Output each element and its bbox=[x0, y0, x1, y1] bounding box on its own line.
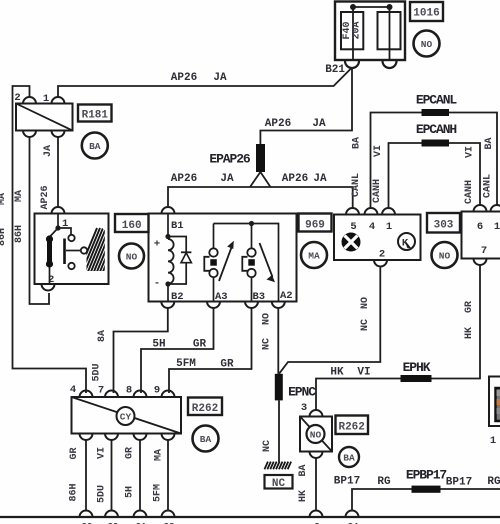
svg-text:GR: GR bbox=[193, 339, 207, 351]
chassis ground hatch (NC) bbox=[265, 462, 292, 470]
svg-text:1: 1 bbox=[494, 221, 500, 233]
svg-text:B21: B21 bbox=[325, 64, 345, 76]
wire: relay B3 5FM GR down-left to CY pin9 bbox=[169, 309, 252, 394]
svg-text:NO: NO bbox=[439, 251, 451, 262]
svg-text:RG: RG bbox=[377, 476, 391, 488]
svg-text:5FM: 5FM bbox=[153, 484, 164, 502]
connector 303 body bbox=[462, 212, 500, 259]
right edge component box bbox=[489, 377, 500, 427]
MA circle (969) bbox=[301, 242, 327, 268]
switch actuator bar bbox=[63, 239, 66, 265]
relay pin bumps bottom B2 A3 B3 A2 bbox=[161, 302, 284, 309]
svg-text:303: 303 bbox=[434, 220, 454, 232]
svg-text:1016: 1016 bbox=[413, 8, 439, 20]
svg-text:NO: NO bbox=[262, 313, 273, 325]
svg-text:B3: B3 bbox=[253, 291, 266, 303]
NO pressure switch body bbox=[300, 417, 332, 452]
wire: EPCANL run from 969 pin4 to right connector pin1 bbox=[371, 113, 498, 210]
fuse box 1016 outline bbox=[335, 2, 405, 61]
component label box R262 (CY) bbox=[188, 398, 222, 416]
svg-text:4: 4 bbox=[369, 221, 375, 233]
svg-text:JA: JA bbox=[312, 118, 326, 130]
svg-text:EPCANL: EPCANL bbox=[416, 93, 458, 108]
svg-text:NO: NO bbox=[360, 297, 371, 309]
wire: 969 pin2 NO/NC down then left to EPNC bar bbox=[279, 268, 380, 374]
svg-text:GR: GR bbox=[69, 447, 80, 459]
svg-text:EPNC: EPNC bbox=[288, 385, 316, 400]
svg-text:HK: HK bbox=[298, 490, 309, 502]
svg-text:MA: MA bbox=[14, 190, 25, 202]
svg-text:VI: VI bbox=[357, 367, 370, 379]
wire: relay B2 down-left to CY pin7 bbox=[114, 309, 168, 394]
svg-text:5FM: 5FM bbox=[176, 358, 196, 370]
svg-text:JA: JA bbox=[220, 173, 234, 185]
svg-text:R262: R262 bbox=[338, 422, 364, 434]
component label box NC bbox=[265, 475, 293, 489]
svg-text:EPHK: EPHK bbox=[403, 360, 431, 375]
svg-text:CANL: CANL bbox=[483, 174, 494, 198]
svg-text:NO: NO bbox=[421, 39, 433, 50]
svg-text:BP17: BP17 bbox=[446, 477, 472, 489]
fuse box terminal bumps bbox=[345, 61, 397, 68]
svg-text:BA: BA bbox=[298, 464, 309, 476]
connector 969 bottom bump pin 2 bbox=[374, 260, 387, 267]
svg-text:86H: 86H bbox=[69, 483, 80, 501]
bottom bus bar bbox=[0, 516, 500, 518]
NO circle (1016) bbox=[414, 31, 440, 57]
svg-text:5H: 5H bbox=[125, 486, 136, 498]
svg-text:BA: BA bbox=[89, 141, 101, 152]
svg-text:BA: BA bbox=[484, 137, 495, 149]
svg-text:4: 4 bbox=[70, 384, 76, 396]
svg-text:GR: GR bbox=[464, 301, 475, 313]
wire: R181 pin1 top AP26 JA horizontal to B21 bbox=[58, 68, 352, 99]
svg-text:BA: BA bbox=[343, 453, 355, 464]
svg-text:HK: HK bbox=[330, 367, 344, 379]
svg-text:R262: R262 bbox=[192, 403, 218, 415]
fuse 2 (blank) bbox=[378, 12, 401, 49]
svg-text:BP17: BP17 bbox=[334, 476, 360, 488]
component label box 303 bbox=[427, 213, 460, 233]
svg-text:EPCANH: EPCANH bbox=[416, 122, 457, 137]
svg-text:A3: A3 bbox=[215, 291, 228, 303]
diode D1 branch bbox=[168, 237, 186, 285]
svg-text:CANH: CANH bbox=[372, 179, 383, 203]
connector 969 top bumps pins 5 4 1 bbox=[346, 208, 395, 215]
svg-text:7: 7 bbox=[481, 245, 487, 257]
svg-text:A2: A2 bbox=[280, 290, 293, 302]
component label box 969 bbox=[299, 214, 332, 232]
wire: relay A2 pin down into EPNC bar bbox=[277, 309, 279, 374]
splice bar EPCANH bbox=[422, 140, 450, 147]
wire: R181 bottom-left down-left rail to switch pin2 bbox=[30, 137, 50, 305]
svg-text:160: 160 bbox=[122, 220, 142, 232]
svg-text:AP26: AP26 bbox=[171, 72, 197, 84]
svg-text:AP26: AP26 bbox=[265, 118, 291, 130]
svg-text:HK: HK bbox=[464, 327, 475, 339]
switch internal wiring bbox=[50, 214, 72, 285]
svg-text:CANH: CANH bbox=[464, 180, 475, 204]
svg-text:1: 1 bbox=[490, 435, 496, 447]
connector 303 bottom bump pin 7 bbox=[474, 259, 487, 266]
wire: AP26 JA rail y187 from relay B1 to 969 pin5 bbox=[168, 187, 353, 209]
connector CY body bbox=[72, 397, 182, 434]
component label box 1016 bbox=[410, 2, 443, 21]
relay K1 body bbox=[149, 214, 297, 302]
contact B3 bbox=[251, 224, 253, 302]
splice bar EPHK bbox=[401, 375, 432, 382]
wire: EPNC bar down to chassis ground bbox=[278, 400, 280, 462]
svg-text:5DU: 5DU bbox=[92, 363, 103, 381]
svg-text:NC: NC bbox=[262, 338, 273, 350]
component label box 160 bbox=[115, 214, 149, 232]
CY bottom bumps bbox=[80, 434, 175, 441]
svg-text:MA: MA bbox=[154, 449, 165, 461]
svg-text:NO: NO bbox=[126, 252, 138, 263]
svg-text:-: - bbox=[154, 278, 160, 290]
contact A3 motion arrow bbox=[219, 246, 232, 281]
svg-text:5DU: 5DU bbox=[97, 485, 108, 503]
lamp symbol in connector bbox=[342, 233, 361, 252]
svg-text:MA: MA bbox=[308, 251, 320, 262]
bottom bus bumps bbox=[80, 511, 359, 517]
svg-text:2: 2 bbox=[379, 249, 385, 261]
BA circle (CY) bbox=[193, 426, 219, 452]
svg-text:NC: NC bbox=[272, 478, 286, 490]
splice bar EPBP17 bbox=[412, 486, 441, 493]
BA circle (pressure switch) bbox=[339, 447, 359, 467]
svg-text:EPBP17: EPBP17 bbox=[406, 468, 447, 483]
wire: BP17 RG horizontal through EPBP17 bar to right edge bbox=[352, 489, 500, 511]
NO circle (303) bbox=[432, 242, 458, 268]
svg-text:GR: GR bbox=[220, 359, 234, 371]
fuse feed wires with junction dots bbox=[353, 7, 390, 60]
clipped pin numbers below bus bbox=[82, 522, 359, 524]
connector 303 top bumps pins 6 1 bbox=[474, 205, 500, 211]
svg-text:8A: 8A bbox=[97, 330, 108, 342]
R181 pin bumps bbox=[23, 97, 65, 103]
svg-text:NC: NC bbox=[360, 319, 371, 331]
svg-text:86H: 86H bbox=[0, 228, 8, 246]
relay contact rail bbox=[214, 224, 279, 302]
svg-text:GR: GR bbox=[125, 447, 136, 459]
splice bar EPCANL bbox=[422, 109, 450, 116]
svg-text:1: 1 bbox=[386, 221, 392, 233]
svg-text:7: 7 bbox=[98, 385, 104, 397]
svg-text:9: 9 bbox=[154, 385, 160, 397]
switch S1 body bbox=[35, 214, 109, 285]
wire: NO-switch bottom HK down to bottom bus bbox=[315, 458, 317, 512]
svg-text:2: 2 bbox=[14, 92, 20, 104]
wire: B21 vertical down, AP26 JA horizontal into EPAP26 bar bbox=[260, 68, 352, 145]
svg-text:VI: VI bbox=[97, 447, 108, 459]
svg-text:6: 6 bbox=[477, 221, 483, 233]
svg-text:VI: VI bbox=[465, 146, 476, 158]
connector 969 body bbox=[334, 215, 421, 261]
motor K symbol in connector bbox=[398, 233, 415, 250]
svg-text:JA: JA bbox=[43, 145, 54, 157]
wire: R181 pin2 to left rail MA/86H down to CY pin 4 bbox=[13, 86, 87, 393]
component label box R262 (pressure switch) bbox=[336, 416, 369, 435]
fuse F40 20A bbox=[341, 12, 363, 49]
svg-text:NO: NO bbox=[310, 430, 322, 441]
relay R181 body bbox=[16, 104, 73, 131]
wire: HK VI rail through EPHK bar from switch3 up to right connector pin7 bbox=[316, 265, 480, 410]
wire: CY pin outputs down to bottom bus bbox=[86, 440, 168, 511]
svg-text:NC: NC bbox=[262, 440, 273, 452]
svg-text:8: 8 bbox=[126, 385, 132, 397]
svg-text:3: 3 bbox=[301, 402, 307, 414]
splice bar EPAP26 bbox=[256, 144, 265, 172]
svg-text:CY: CY bbox=[120, 412, 132, 423]
svg-text:MA: MA bbox=[0, 193, 8, 205]
svg-text:BA: BA bbox=[200, 434, 212, 445]
relay pin bumps top B1 bbox=[162, 207, 175, 214]
svg-text:AP26: AP26 bbox=[171, 173, 197, 185]
svg-text:AP26: AP26 bbox=[282, 173, 308, 185]
wire: EPCANH run from 969 pin1 to right connector pin6 bbox=[389, 143, 481, 209]
svg-text:JA: JA bbox=[313, 173, 327, 185]
svg-text:5: 5 bbox=[350, 221, 356, 233]
svg-text:B1: B1 bbox=[171, 220, 184, 232]
svg-text:20A: 20A bbox=[352, 21, 363, 39]
svg-text:B2: B2 bbox=[171, 291, 184, 303]
svg-text:VI: VI bbox=[373, 145, 384, 157]
switch pin bumps bbox=[52, 207, 65, 214]
contact A3 bbox=[213, 224, 215, 302]
svg-text:CANL: CANL bbox=[351, 173, 362, 197]
svg-text:5H: 5H bbox=[152, 339, 165, 351]
svg-text:RG: RG bbox=[487, 476, 500, 488]
splice bar EPNC bbox=[275, 374, 283, 401]
switch movable contact (thick bar) bbox=[47, 239, 52, 264]
CY circle bbox=[117, 407, 135, 425]
contact B3 motion arrow bbox=[260, 243, 273, 277]
svg-text:969: 969 bbox=[305, 220, 325, 232]
BA circle (R181) bbox=[82, 133, 108, 159]
NO circle (pressure switch) bbox=[307, 425, 325, 443]
svg-text:EPAP26: EPAP26 bbox=[209, 152, 251, 167]
relay coil with polarity bbox=[167, 214, 169, 240]
wire: Y split under EPAP26 bar bbox=[250, 172, 271, 187]
wire: R181 bottom-right JA AP26 down to switch pin1 bbox=[57, 137, 59, 208]
NO switch bumps bbox=[310, 410, 323, 416]
svg-text:1: 1 bbox=[43, 93, 49, 105]
component label box R181 bbox=[78, 105, 112, 122]
CY top bumps pins 4 7 8 9 bbox=[80, 391, 175, 397]
svg-text:AP26: AP26 bbox=[40, 185, 51, 209]
svg-text:R181: R181 bbox=[82, 110, 109, 122]
switch fixed contacts bbox=[68, 235, 74, 241]
svg-text:86H: 86H bbox=[14, 225, 25, 243]
svg-text:JA: JA bbox=[213, 72, 227, 84]
svg-text:+: + bbox=[154, 239, 160, 251]
svg-text:BA: BA bbox=[352, 137, 363, 149]
wire: relay A3 5H GR down-left to CY pin8 bbox=[141, 309, 214, 394]
NO circle (160) bbox=[119, 244, 144, 269]
